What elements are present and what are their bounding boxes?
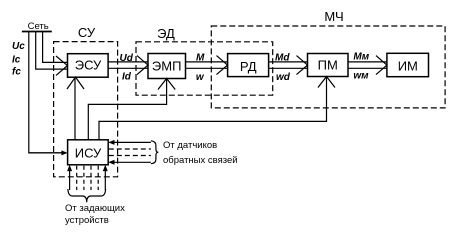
- svg-text:w: w: [196, 72, 205, 83]
- svg-text:ИМ: ИМ: [398, 58, 418, 73]
- svg-text:От датчиков: От датчиков: [163, 140, 217, 151]
- svg-text:устройств: устройств: [65, 215, 109, 226]
- svg-text:wd: wd: [276, 72, 291, 83]
- svg-text:МЧ: МЧ: [324, 9, 343, 24]
- svg-text:Md: Md: [275, 52, 290, 63]
- svg-text:СУ: СУ: [78, 25, 96, 40]
- svg-text:Ud: Ud: [120, 53, 134, 64]
- svg-text:От задающих: От задающих: [65, 203, 125, 214]
- svg-text:обратных связей: обратных связей: [163, 155, 238, 166]
- svg-text:М: М: [196, 53, 205, 64]
- svg-text:ЭСУ: ЭСУ: [75, 57, 102, 72]
- svg-text:РД: РД: [240, 59, 257, 74]
- svg-text:ЭД: ЭД: [157, 26, 175, 41]
- svg-text:Uc: Uc: [12, 41, 25, 52]
- svg-text:wм: wм: [353, 71, 369, 82]
- svg-text:ПМ: ПМ: [318, 58, 338, 73]
- svg-text:Ic: Ic: [12, 55, 21, 66]
- svg-text:fc: fc: [12, 67, 21, 78]
- svg-text:Mм: Mм: [353, 52, 369, 63]
- svg-text:ИСУ: ИСУ: [75, 145, 102, 160]
- svg-text:Сеть: Сеть: [28, 21, 49, 32]
- svg-text:ЭМП: ЭМП: [152, 59, 182, 74]
- svg-text:Id: Id: [122, 72, 132, 83]
